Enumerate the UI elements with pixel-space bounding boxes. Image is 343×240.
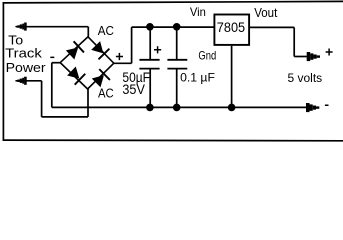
wire: C2 bottom lead [176,69,178,107]
wire: ground rail riser to bridge - vertex [51,63,53,108]
svg-text:Track: Track [5,46,42,61]
label plus at C1 [154,46,161,53]
wire: bottom AC lead run under bridge [42,116,88,118]
arrow +5V output [307,52,320,61]
label minus at output [325,105,329,107]
wire: bottom AC lead horizontal [16,80,42,82]
arrow -output [306,103,319,112]
svg-text:5 volts: 5 volts [288,73,323,85]
diode D1 (left to top vertex) [65,41,85,61]
wire: top AC lead horizontal [16,26,88,28]
arrow to track power (top lead) [15,23,26,31]
bridge rectifier diamond BR1 [60,37,114,89]
wire: riser up to top rail [131,27,133,63]
svg-text:35V: 35V [122,82,144,97]
diode D4 (bottom to right vertex) [91,68,111,88]
wire: Vout to output corner [250,26,295,28]
wire: bridge - vertex stub [52,62,61,64]
wire: C2 top lead [176,27,178,59]
svg-text:Power: Power [6,60,47,75]
regulator U1 7805 box [214,15,249,45]
diode D3 (left to bottom vertex) [66,66,86,86]
node: junction dot ground rail at Gnd pin [228,104,236,112]
node: junction dot ground rail at C2 [173,104,181,112]
wire: C1 top lead [149,27,151,59]
node: junction dot top rail at C1 [146,23,154,31]
svg-text:AC: AC [98,23,114,38]
label minus at bridge left vertex [50,57,54,59]
svg-text:AC: AC [98,86,114,101]
wire: output drop [293,27,295,56]
node: junction dot ground rail at C1 [146,104,154,112]
arrow to track power (bottom lead) [15,77,26,85]
node: junction dot top rail at C2 [173,23,181,31]
border frame left [2,2,4,140]
wire: bottom AC lead up to bridge bottom vertex [87,89,89,117]
wire: top AC lead drop to bridge top vertex [87,27,89,38]
label plus at output [326,49,333,56]
label plus at bridge right vertex [116,53,123,60]
svg-text:Gnd: Gnd [198,49,216,63]
svg-text:7805: 7805 [217,19,245,35]
wire: +5V output stub [294,56,308,58]
wire: bottom AC lead drop [41,81,43,117]
wire: ground rail [52,106,307,108]
wire: C1 bottom lead [149,69,151,107]
capacitor C1 50uF plates [139,60,159,69]
capacitor C2 0.1uF plates [167,60,187,69]
wire: 7805 Gnd pin down to ground rail [231,46,233,108]
border frame top [3,1,343,3]
border frame bottom [3,139,343,142]
diode D2 (top to right vertex) [90,40,110,60]
svg-text:Vout: Vout [254,6,278,20]
svg-text:Vin: Vin [190,5,206,19]
wire: top positive rail to 7805 Vin [132,26,214,28]
wire: bridge + vertex to riser [114,62,132,64]
svg-text:0.1 µF: 0.1 µF [180,70,215,84]
